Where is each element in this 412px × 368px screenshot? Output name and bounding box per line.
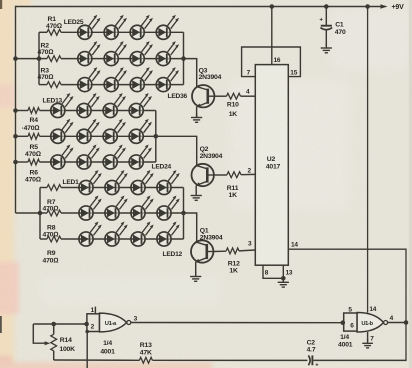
node clock feedback	[404, 320, 409, 325]
LED LED26	[104, 25, 118, 39]
LED LED7	[131, 206, 145, 220]
LED LED32	[156, 52, 170, 66]
LED LED20	[129, 129, 143, 143]
wire U2 pins 8-13	[263, 265, 283, 278]
wire group A left bus	[38, 32, 40, 84]
LED LED10	[105, 232, 119, 246]
LED LED36	[156, 78, 170, 92]
wire U1-a pin1 stub	[94, 307, 96, 314]
LED LED5	[79, 206, 93, 220]
LED LED31	[130, 52, 144, 66]
wire Q1 base	[213, 250, 226, 252]
LED LED28 emission arrows	[168, 15, 180, 29]
LED LED4	[157, 180, 171, 194]
LED LED8	[157, 206, 171, 220]
gate U1-a body	[100, 313, 127, 332]
resistor R11	[227, 172, 241, 178]
node U1-a input	[84, 322, 89, 327]
LED LED24	[129, 155, 143, 169]
wire C2 to feedback	[313, 359, 406, 361]
LED LED6	[105, 206, 119, 220]
LED LED21	[51, 155, 65, 169]
node left bus row5	[13, 134, 18, 139]
LED LED31 emission arrows	[141, 41, 153, 55]
transistor Q2	[192, 164, 214, 186]
wire row 4	[16, 110, 29, 112]
+9V supply rail	[16, 6, 386, 8]
LED LED14	[77, 103, 91, 117]
LED LED19 emission arrows	[114, 119, 126, 133]
node U1-a box bottom	[85, 330, 89, 334]
wire C1 bottom	[325, 30, 327, 46]
wire feed to group C bus	[16, 212, 41, 214]
resistor R5	[28, 133, 40, 139]
LED LED1	[79, 180, 93, 194]
LED LED15	[103, 103, 117, 117]
node rail C1	[324, 4, 329, 9]
LED LED2	[105, 180, 119, 194]
LED LED13	[51, 103, 65, 117]
LED LED35	[130, 78, 144, 92]
LED LED3 emission arrows	[142, 170, 154, 184]
resistor R8	[47, 210, 61, 216]
LED LED9	[79, 232, 93, 246]
LED LED19	[103, 129, 117, 143]
LED LED30 emission arrows	[115, 41, 127, 55]
LED LED17	[51, 129, 65, 143]
wire row 2	[39, 58, 47, 60]
LED LED4 emission arrows	[168, 170, 180, 184]
LED LED17 emission arrows	[62, 119, 74, 133]
wire row 5	[16, 135, 29, 137]
wire row 8	[40, 212, 47, 214]
resistor R6	[28, 159, 40, 165]
node pin13 ground	[281, 276, 286, 281]
resistor R13	[139, 357, 152, 363]
node rail pin16	[270, 4, 275, 9]
wire Q1 emitter	[195, 262, 197, 274]
ground Q2	[191, 192, 202, 201]
gate U1-b body	[357, 313, 383, 333]
wire U2 pin14 clock	[288, 249, 406, 360]
LED LED11	[131, 232, 145, 246]
node left bus row6	[13, 160, 18, 165]
wire group B right bus	[155, 111, 157, 163]
wire feed to group A bus	[16, 58, 40, 60]
wire Q3 collector	[184, 59, 197, 87]
LED LED12 emission arrows	[168, 222, 180, 236]
LED LED35 emission arrows	[141, 67, 153, 81]
wire Q2 emitter	[195, 186, 197, 194]
wire R10 to pin4	[241, 95, 256, 97]
LED LED26 emission arrows	[115, 15, 127, 29]
LED LED27 emission arrows	[141, 15, 153, 29]
ground U2	[278, 278, 289, 287]
wire left +9V bus	[15, 6, 17, 213]
node group B right	[154, 134, 159, 139]
wire Q3 base	[214, 95, 226, 97]
LED LED22 emission arrows	[88, 145, 100, 159]
LED LED12	[157, 232, 171, 246]
LED LED29 emission arrows	[89, 41, 101, 55]
wire row 3	[39, 84, 47, 86]
ground C1	[321, 44, 332, 53]
wire U1-b pin7	[367, 332, 369, 341]
ground U1-b	[362, 340, 373, 348]
wire R13 to C2	[152, 359, 307, 361]
paper left margin tint	[0, 0, 31, 368]
LED LED34 emission arrows	[115, 67, 127, 81]
wire Q3 emitter	[196, 107, 198, 118]
wire Q1 collector	[184, 213, 197, 242]
U1-b output bubble	[384, 321, 388, 325]
capacitor C1	[321, 25, 332, 27]
wiper arrowhead R14	[45, 341, 51, 345]
paper pink blotches	[0, 84, 19, 368]
LED LED2 emission arrows	[116, 170, 128, 184]
LED LED14 emission arrows	[88, 93, 100, 107]
LED LED20 emission arrows	[140, 119, 152, 133]
LED LED18	[77, 129, 91, 143]
node rail U1 supply	[365, 4, 370, 9]
LED LED28	[156, 25, 170, 39]
paper bottom strip	[0, 362, 412, 368]
resistor R12	[226, 248, 239, 254]
LED LED25 emission arrows	[89, 15, 101, 29]
wire row 7	[40, 187, 47, 189]
LED LED1 emission arrows	[90, 170, 102, 184]
LED LED15 emission arrows	[114, 93, 126, 107]
wire row 9	[40, 238, 47, 240]
node U1-b input	[341, 320, 346, 325]
node left bus row2	[13, 56, 18, 61]
resistor R10	[227, 93, 241, 99]
LED LED29	[78, 52, 92, 66]
IC U2 4017 body	[255, 65, 288, 266]
wire group C left bus	[39, 188, 41, 240]
transistor Q3	[192, 85, 214, 107]
LED LED11 emission arrows	[142, 222, 154, 236]
node group C right	[181, 211, 186, 216]
LED LED9 emission arrows	[90, 222, 102, 236]
LED LED5 emission arrows	[90, 196, 102, 210]
wire bottom R14 to R13	[54, 359, 140, 361]
LED LED16	[129, 103, 143, 117]
ground Q1	[190, 273, 201, 282]
wire U2 pin7-15 bracket	[242, 47, 301, 77]
LED LED18 emission arrows	[88, 119, 100, 133]
wire U1-b output	[388, 322, 406, 324]
paper light patches	[40, 10, 410, 305]
resistor R1	[47, 29, 61, 35]
wire Q2 collector	[156, 136, 197, 166]
wire R14 top node	[33, 323, 87, 325]
U1-a output bubble	[127, 321, 131, 325]
gate U1-b input box	[344, 313, 357, 331]
resistor R3	[47, 82, 61, 88]
wire row 6	[16, 161, 29, 163]
node group A bus	[37, 56, 42, 61]
LED LED24 emission arrows	[140, 145, 152, 159]
LED LED8 emission arrows	[168, 196, 180, 210]
wire R12 to pin3	[239, 249, 255, 252]
LED LED3	[131, 180, 145, 194]
LED LED16 emission arrows	[140, 93, 152, 107]
node group C bus	[38, 211, 43, 216]
ground Q3	[191, 114, 202, 123]
LED LED21 emission arrows	[62, 145, 74, 159]
LED LED23	[103, 155, 117, 169]
capacitor C2	[308, 355, 310, 365]
LED LED10 emission arrows	[116, 222, 128, 236]
LED LED33 emission arrows	[89, 67, 101, 81]
wire R14 wiper loop	[33, 324, 46, 343]
resistor R9	[47, 236, 61, 242]
node left bus row4	[13, 108, 18, 113]
LED LED25	[78, 25, 92, 39]
LED LED34	[104, 78, 118, 92]
LED LED23 emission arrows	[114, 145, 126, 159]
LED LED22	[77, 155, 91, 169]
resistor R7	[47, 185, 61, 191]
transistor Q1	[191, 240, 213, 262]
wire group C right bus	[183, 188, 185, 240]
LED LED36 emission arrows	[168, 67, 180, 81]
node group A right	[181, 56, 186, 61]
wire Q2 base	[214, 174, 227, 176]
LED LED6 emission arrows	[116, 196, 128, 210]
LED LED33	[78, 78, 92, 92]
potentiometer R14	[53, 324, 55, 334]
wire U1-a box to bottom	[86, 332, 88, 368]
wire group A right bus	[183, 32, 185, 84]
wire R11 to pin2	[241, 173, 255, 175]
node R14 top	[51, 322, 56, 327]
wire U1-b pin14 supply	[367, 7, 369, 313]
LED LED7 emission arrows	[142, 196, 154, 210]
resistor R2	[47, 56, 61, 62]
LED LED32 emission arrows	[168, 41, 180, 55]
wire row 1	[39, 31, 47, 33]
LED LED27	[130, 25, 144, 39]
paper scan edge artifacts	[0, 0, 2, 9]
gate U1-a input box	[87, 314, 100, 332]
wire U1-a out to U1-b in	[131, 322, 344, 324]
LED LED13 emission arrows	[62, 93, 74, 107]
+9V arrowhead	[381, 4, 388, 8]
resistor R4	[28, 108, 40, 114]
wire C1 top	[325, 7, 327, 26]
wire U2 pin16 supply	[271, 7, 273, 65]
LED LED30	[104, 52, 118, 66]
